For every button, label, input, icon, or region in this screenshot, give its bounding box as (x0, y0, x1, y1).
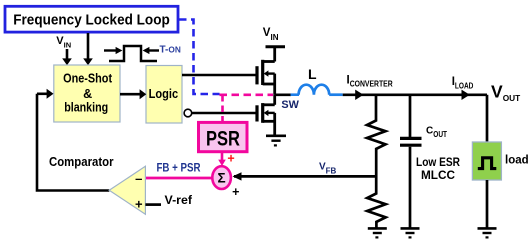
transistor Q2 low-side MOSFET (257, 95, 275, 136)
wire SW to inductor (275, 93, 299, 96)
inductor L (299, 66, 343, 95)
I_LOAD arrow and label (452, 76, 474, 100)
V-ref stub and label (145, 195, 192, 207)
node VIN (control input) (56, 35, 71, 50)
pink dashed branch down to PSR (221, 95, 224, 121)
resistor R1 and R2 divider chain (367, 95, 386, 229)
ground (divider) (368, 228, 387, 237)
transistor Q1 high-side MOSFET (257, 47, 285, 95)
svg-text:V-ref: V-ref (165, 195, 193, 207)
summing junction sigma (212, 166, 231, 189)
blue dashed FLL sense wire (179, 20, 220, 95)
wire logic to high-side gate (182, 74, 257, 77)
ground (capacitor) (401, 228, 420, 237)
plus sign (PSR input, red) (227, 151, 234, 165)
logic block (146, 66, 182, 124)
svg-text:FB + PSR: FB + PSR (157, 162, 202, 174)
ground (power stage) (266, 136, 286, 146)
svg-text:Logic: Logic (149, 86, 179, 101)
svg-text:MLCC: MLCC (421, 168, 455, 182)
svg-text:blanking: blanking (64, 101, 108, 115)
label FB + PSR (157, 162, 202, 174)
wire FLL output down into One-Shot (83, 33, 93, 65)
pink dashed SW sense wire (220, 94, 274, 97)
T-ON pulse symbol (104, 46, 159, 61)
svg-text:PSR: PSR (206, 128, 240, 151)
wire logic to low-side gate (192, 112, 257, 115)
svg-text:Frequency Locked Loop: Frequency Locked Loop (13, 13, 170, 29)
ground (load) (478, 228, 497, 237)
svg-text:&: & (83, 87, 92, 101)
PSR block (199, 122, 248, 151)
svg-text:T-ON: T-ON (160, 45, 181, 56)
one-shot and blanking block (54, 65, 120, 122)
svg-text:L: L (308, 66, 317, 82)
I_CONVERTER arrow and label (347, 74, 393, 100)
comparator U1 (109, 166, 145, 214)
node SW label (281, 99, 299, 111)
label Low ESR MLCC (416, 155, 460, 182)
node VFB label (319, 161, 337, 175)
svg-text:Σ: Σ (218, 170, 226, 185)
svg-text:+: + (232, 185, 239, 199)
wire load to ground (486, 180, 489, 228)
wire sigma to comparator (FB+PSR) (146, 177, 213, 180)
wire comparator output feedback to One-Shot (37, 89, 109, 191)
node VOUT label (491, 81, 521, 102)
svg-text:One-Shot: One-Shot (63, 72, 113, 86)
Frequency Locked Loop block (5, 6, 178, 32)
wire output rail (343, 93, 487, 96)
wire PSR to summing node (218, 152, 226, 166)
svg-text:load: load (505, 155, 529, 167)
label Comparator (49, 154, 114, 169)
label T-ON (160, 45, 181, 56)
svg-text:Low ESR: Low ESR (416, 155, 460, 169)
wire One-Shot to Logic (120, 89, 146, 99)
svg-text:–: – (135, 171, 142, 186)
wire VOUT drop to load (486, 95, 489, 142)
node VIN (power) (263, 27, 279, 42)
load block (472, 142, 528, 180)
capacitor COUT (400, 95, 447, 229)
svg-text:Comparator: Comparator (49, 154, 114, 169)
inverter bubble (184, 109, 192, 117)
plus sign (FB input, black) (232, 185, 239, 199)
svg-text:+: + (135, 197, 143, 212)
wire VIN arrow into One-Shot (62, 49, 72, 65)
wire FB tap to summing node (233, 172, 377, 180)
svg-text:SW: SW (281, 99, 299, 111)
svg-text:+: + (227, 151, 234, 165)
